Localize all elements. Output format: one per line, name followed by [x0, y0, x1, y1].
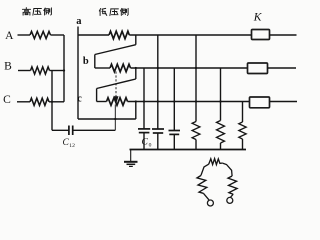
wire tap continuation to C12 — [114, 105, 116, 131]
wire C lead — [17, 101, 30, 103]
wire RR to terminal — [230, 194, 233, 197]
wire C to neutral — [49, 101, 64, 103]
arrester R1 zigzag — [192, 122, 200, 140]
wire b row to breaker — [131, 67, 248, 69]
winding a (LV phase a) zigzag — [109, 31, 129, 39]
wire K2 out — [268, 67, 297, 69]
wire b riser — [94, 55, 96, 69]
wire b row left — [95, 67, 110, 69]
wire cap3 to bus — [173, 134, 175, 149]
capacitor C12 plates — [68, 126, 70, 136]
wire C12 left — [52, 129, 69, 131]
wire HV neutral drop to C12 — [51, 71, 53, 131]
winding B (HV phase B) zigzag — [31, 67, 50, 74]
svg-text:c: c — [77, 93, 82, 104]
wire RT right lead — [223, 163, 232, 176]
wire R1 to bus — [195, 140, 197, 150]
wire C12 right — [73, 129, 116, 131]
arrowhead into winding c — [114, 96, 119, 104]
wire B lead — [18, 70, 31, 72]
wire c row left — [97, 101, 107, 103]
wire c riser — [96, 89, 98, 102]
wire R3 to bus — [242, 139, 244, 150]
wire delta diagonal a-b — [95, 45, 136, 55]
wire delta diagonal b-c — [97, 79, 136, 89]
wire a row to breaker — [129, 34, 251, 36]
wire delta stub c-right — [135, 102, 137, 120]
winding b (LV phase b) zigzag — [110, 64, 131, 72]
breaker K2 box — [248, 63, 268, 74]
wire A lead — [18, 34, 31, 36]
arrester R2 zigzag — [217, 121, 225, 144]
breaker K3 box — [250, 97, 270, 108]
wire c row to breaker — [128, 101, 250, 103]
winding A (HV phase A) zigzag — [30, 31, 51, 38]
terminal circle left — [207, 200, 213, 206]
junction blobs at crossings — [143, 100, 145, 102]
wire a-phase left vertical — [77, 27, 79, 120]
terminal circle right — [227, 197, 233, 203]
winding c (LV phase c) zigzag — [107, 98, 128, 106]
wire A to neutral — [51, 34, 65, 36]
wire K1 out — [270, 34, 297, 36]
label 高压侧 (HV side) hand-drawn glyphs — [22, 8, 51, 16]
wire R2 to bus — [220, 143, 222, 150]
capacitor C0-1 plates — [138, 128, 150, 130]
capacitor C0-3 plates — [169, 130, 181, 132]
wire HV neutral vertical (A-B-C join) — [63, 35, 65, 102]
svg-text:K: K — [253, 12, 263, 24]
resistor RL left vertical zigzag — [197, 176, 207, 194]
wire RT left lead — [201, 164, 209, 175]
svg-text:A: A — [5, 30, 14, 42]
svg-text:a: a — [76, 16, 82, 27]
wire cap3 drop (from b row) — [173, 68, 175, 131]
svg-text:0: 0 — [149, 143, 152, 149]
label 低压侧 (LV side) hand-drawn glyphs — [99, 8, 128, 15]
wire arrester R3 drop (from c row) — [242, 102, 244, 123]
ground symbol — [130, 150, 132, 162]
svg-text:B: B — [4, 61, 12, 73]
resistor RR right vertical zigzag — [228, 176, 237, 194]
wire cap2 drop (from a row) — [157, 35, 159, 129]
wire delta stub a-right — [135, 35, 137, 45]
svg-text:C: C — [3, 94, 11, 106]
svg-text:C: C — [142, 138, 149, 148]
wire RL to terminal — [203, 193, 209, 200]
wire delta stub b-right — [135, 68, 137, 79]
capacitor C0-2 plates — [152, 128, 164, 130]
breaker K1 box — [252, 30, 270, 40]
wire arrester R1 drop (from a row) — [195, 35, 197, 122]
dashed tap line through windings b and c — [115, 72, 117, 97]
wire cap1 to bus — [143, 133, 145, 150]
wire B to neutral — [50, 70, 65, 72]
arrester R3 zigzag — [239, 122, 246, 139]
wire cap2 to bus — [157, 133, 159, 150]
svg-text:b: b — [83, 56, 89, 67]
wire arrester R2 drop (from b row) — [220, 68, 222, 121]
svg-text:12: 12 — [69, 143, 75, 149]
wire LV bottom rail — [78, 118, 136, 120]
wire a row left — [78, 34, 109, 36]
wire cap1 drop (from b row) — [143, 68, 145, 129]
wire ground bus — [130, 149, 247, 151]
resistor RT top horizontal zigzag — [209, 159, 223, 165]
winding C (HV phase C) zigzag — [30, 98, 49, 105]
wire K3 out — [270, 101, 298, 103]
